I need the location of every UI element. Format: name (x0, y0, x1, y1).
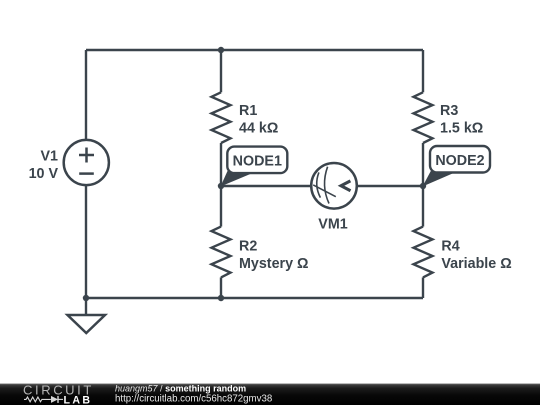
V1 minus sign (79, 172, 94, 175)
svg-text:Variable Ω: Variable Ω (441, 256, 511, 272)
svg-text:R2: R2 (239, 239, 257, 255)
svg-text:44 kΩ: 44 kΩ (239, 121, 278, 137)
CircuitLab logo diode (51, 396, 58, 403)
wire left vertical above V1 (85, 50, 87, 140)
wire top rail (86, 49, 423, 51)
wire NODE1 to voltmeter (221, 185, 311, 187)
wire right vertical above R3 (422, 50, 424, 92)
CircuitLab logo resistor squiggle (24, 397, 51, 402)
wire NODE2 to R4 (422, 186, 424, 227)
wire R3 to NODE2 (422, 143, 424, 186)
node label NODE2 box (430, 146, 490, 173)
svg-text:1.5 kΩ: 1.5 kΩ (440, 121, 483, 137)
node label NODE1 callout tail (221, 171, 252, 187)
svg-text:R4: R4 (441, 239, 459, 255)
wire middle between R1 and NODE1 (220, 143, 222, 186)
voltmeter VM1 circle (311, 163, 357, 209)
voltage source V1 circle (64, 140, 109, 185)
voltmeter inner arc 1 (317, 172, 321, 197)
junction node NODE1 (218, 183, 224, 189)
wire R2 to bottom rail (220, 277, 222, 298)
svg-text:VM1: VM1 (318, 217, 347, 233)
ground symbol triangle (68, 315, 106, 333)
junction node bottom left (83, 295, 89, 301)
node label NODE2 callout tail (423, 171, 453, 187)
resistor R1 body (212, 92, 231, 143)
V1 plus sign (79, 148, 94, 163)
junction node NODE2 (420, 183, 426, 189)
junction node top (218, 47, 224, 53)
wire NODE1 to R2 (220, 186, 222, 227)
svg-text:10 V: 10 V (29, 166, 59, 182)
svg-text:NODE2: NODE2 (435, 153, 484, 169)
ground wire (85, 298, 87, 315)
svg-text:Mystery Ω: Mystery Ω (239, 256, 308, 272)
node label NODE1 box (227, 147, 287, 174)
svg-text:http://circuitlab.com/c56hc872: http://circuitlab.com/c56hc872gmv38 (115, 393, 272, 404)
wire left vertical below V1 (85, 185, 87, 298)
resistor R3 body (414, 92, 433, 143)
svg-text:R3: R3 (440, 103, 458, 119)
wire voltmeter to NODE2 (357, 185, 423, 187)
wire bottom rail (86, 297, 423, 299)
svg-text:huangm57 / something random: huangm57 / something random (115, 384, 246, 394)
svg-text:V1: V1 (41, 148, 59, 164)
resistor R2 body (212, 227, 231, 278)
voltmeter needle (313, 185, 336, 197)
wire middle vertical above R1 (220, 50, 222, 92)
resistor R4 body (414, 227, 433, 278)
voltmeter arrow < (341, 181, 351, 191)
junction node bottom middle (218, 295, 224, 301)
wire R4 to bottom rail (422, 277, 424, 298)
svg-text:LAB: LAB (64, 394, 93, 405)
svg-text:NODE1: NODE1 (233, 154, 282, 170)
svg-text:R1: R1 (239, 103, 257, 119)
voltmeter inner arc 2 (325, 167, 329, 204)
